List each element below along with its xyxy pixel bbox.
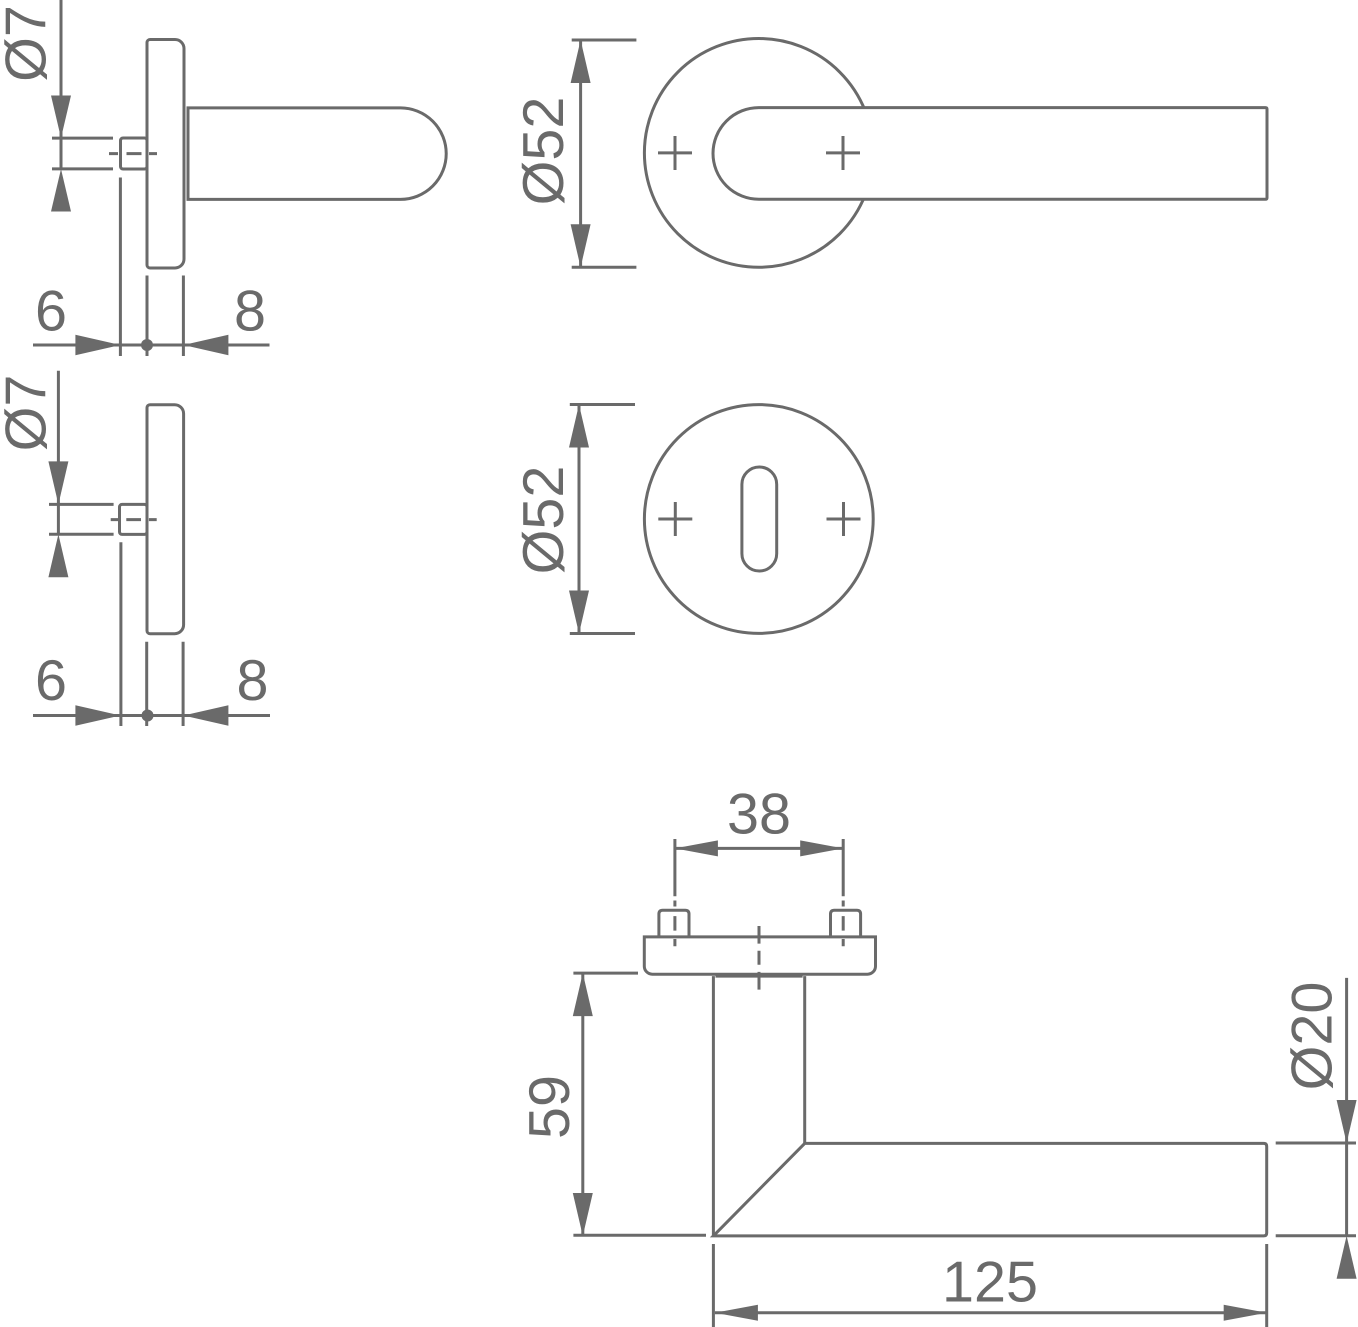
view A: extension line spindle [119,178,122,357]
svg-text:Ø7: Ø7 [0,5,59,82]
svg-text:125: 125 [942,1251,1038,1315]
view B: dim Ø52 arrow down [571,224,591,267]
view E: stud center line left [673,839,676,946]
view C: dim Ø7 arrow up [48,534,68,577]
view A: extension line rose front [146,276,149,357]
svg-text:6: 6 [35,649,67,713]
view E: dim 125 right extension [1265,1244,1268,1327]
view A: spindle center line [109,152,157,155]
view B: dim Ø52 dimension line [579,40,582,267]
view A: dim Ø7 arrow up [51,169,71,212]
view C: extension line rose back [182,642,185,726]
view C: dim 8 arrow [183,705,228,726]
view E: neck left edge [712,976,715,1236]
svg-text:Ø20: Ø20 [1281,982,1345,1091]
view E: dim 59 arrow up [573,973,593,1016]
view B: screw cross left [658,136,692,170]
svg-text:6: 6 [35,280,67,344]
view D: dim Ø52 arrow up [569,405,589,448]
view A: dim Ø7 dimension line [60,0,63,169]
view E: dim 125 arrow left [715,1305,758,1321]
view C: extension line spindle [119,542,122,726]
svg-text:59: 59 [518,1075,582,1139]
view E: dim Ø20 arrow up [1337,1236,1357,1279]
view E: dim Ø20 bottom tick [1276,1234,1356,1237]
view B: dim Ø52 top tick [572,39,637,42]
view A: dim 6 arrow [75,335,120,356]
view E: dim 125 arrow right [1224,1305,1267,1321]
view D: dim Ø52 arrow down [569,591,589,634]
view A: dim Ø7 arrow down [51,96,71,139]
view C: extension line rose front [145,642,148,726]
svg-text:Ø7: Ø7 [0,375,59,452]
view D: screw cross left [658,502,692,536]
view B: rose circle front [644,38,873,267]
view C: dim node dot [142,710,154,722]
view A: dim 6/8 dimension line [33,344,270,347]
view E: grip outline with bend [713,1143,1266,1236]
view D: screw cross right [827,502,861,536]
view E: neck top edge [716,975,803,978]
view E: dim Ø20 dimension line [1345,978,1348,1236]
view E: dim 125 left extension [712,1244,715,1327]
view E: dim 59 top extension [573,972,638,975]
view C: dim Ø7 arrow down [48,461,68,504]
view E: dim 59 bottom extension [573,1234,706,1237]
view A: dim Ø7 bottom tick [52,167,113,170]
view E: dim Ø20 arrow down [1337,1100,1357,1143]
view C: spindle square [120,504,148,534]
view E: dim 59 dimension line [581,973,584,1236]
view C: dim Ø7 top tick [49,503,114,506]
view A: dim Ø7 top tick [52,137,113,140]
view E: dim 59 arrow down [573,1193,593,1236]
view B: dim Ø52 bottom tick [572,266,637,269]
view D: key rose circle [644,405,873,634]
view C: dim Ø7 dimension line [57,371,60,535]
view C: dim 6 arrow [75,705,120,726]
view E: neck right edge [803,976,806,1143]
view E: plate center line [758,926,761,990]
view D: keyhole slot [742,467,777,571]
view E: screw stud right [831,910,861,937]
view C: dim Ø7 bottom tick [49,533,114,536]
view A: spindle square [121,138,148,169]
svg-text:8: 8 [234,280,266,344]
view E: screw stud left [659,910,689,937]
view A: handle bar side profile [188,108,446,199]
view C: spindle center line [111,518,157,521]
svg-text:Ø52: Ø52 [512,97,576,206]
view B: dim Ø52 arrow up [571,40,591,83]
view C: rose plate side profile [147,405,184,634]
view A: extension line rose back [182,276,185,357]
view D: dim Ø52 top tick [570,403,635,406]
view A: dim 8 arrow [183,335,228,356]
svg-text:Ø52: Ø52 [512,466,576,575]
view E: dim 38 arrow left [675,840,718,856]
view C: dim 6/8 dimension line [33,714,270,717]
view B: lever handle front [713,108,1267,200]
view E: rose plate top view [644,937,875,974]
view E: stud center line right [842,839,845,946]
view B: screw cross right [826,136,860,170]
view A: dim node dot [141,339,153,351]
view D: dim Ø52 dimension line [578,405,581,634]
svg-text:38: 38 [727,783,791,847]
svg-text:8: 8 [237,649,269,713]
view E: dim 38 arrow right [800,840,843,856]
view E: dim Ø20 top tick [1276,1142,1356,1145]
view A: rose plate side profile [147,40,184,269]
view E: dim 38 dimension line [675,847,843,850]
view D: dim Ø52 bottom tick [570,632,635,635]
view E: dim 125 dimension line [715,1311,1267,1314]
